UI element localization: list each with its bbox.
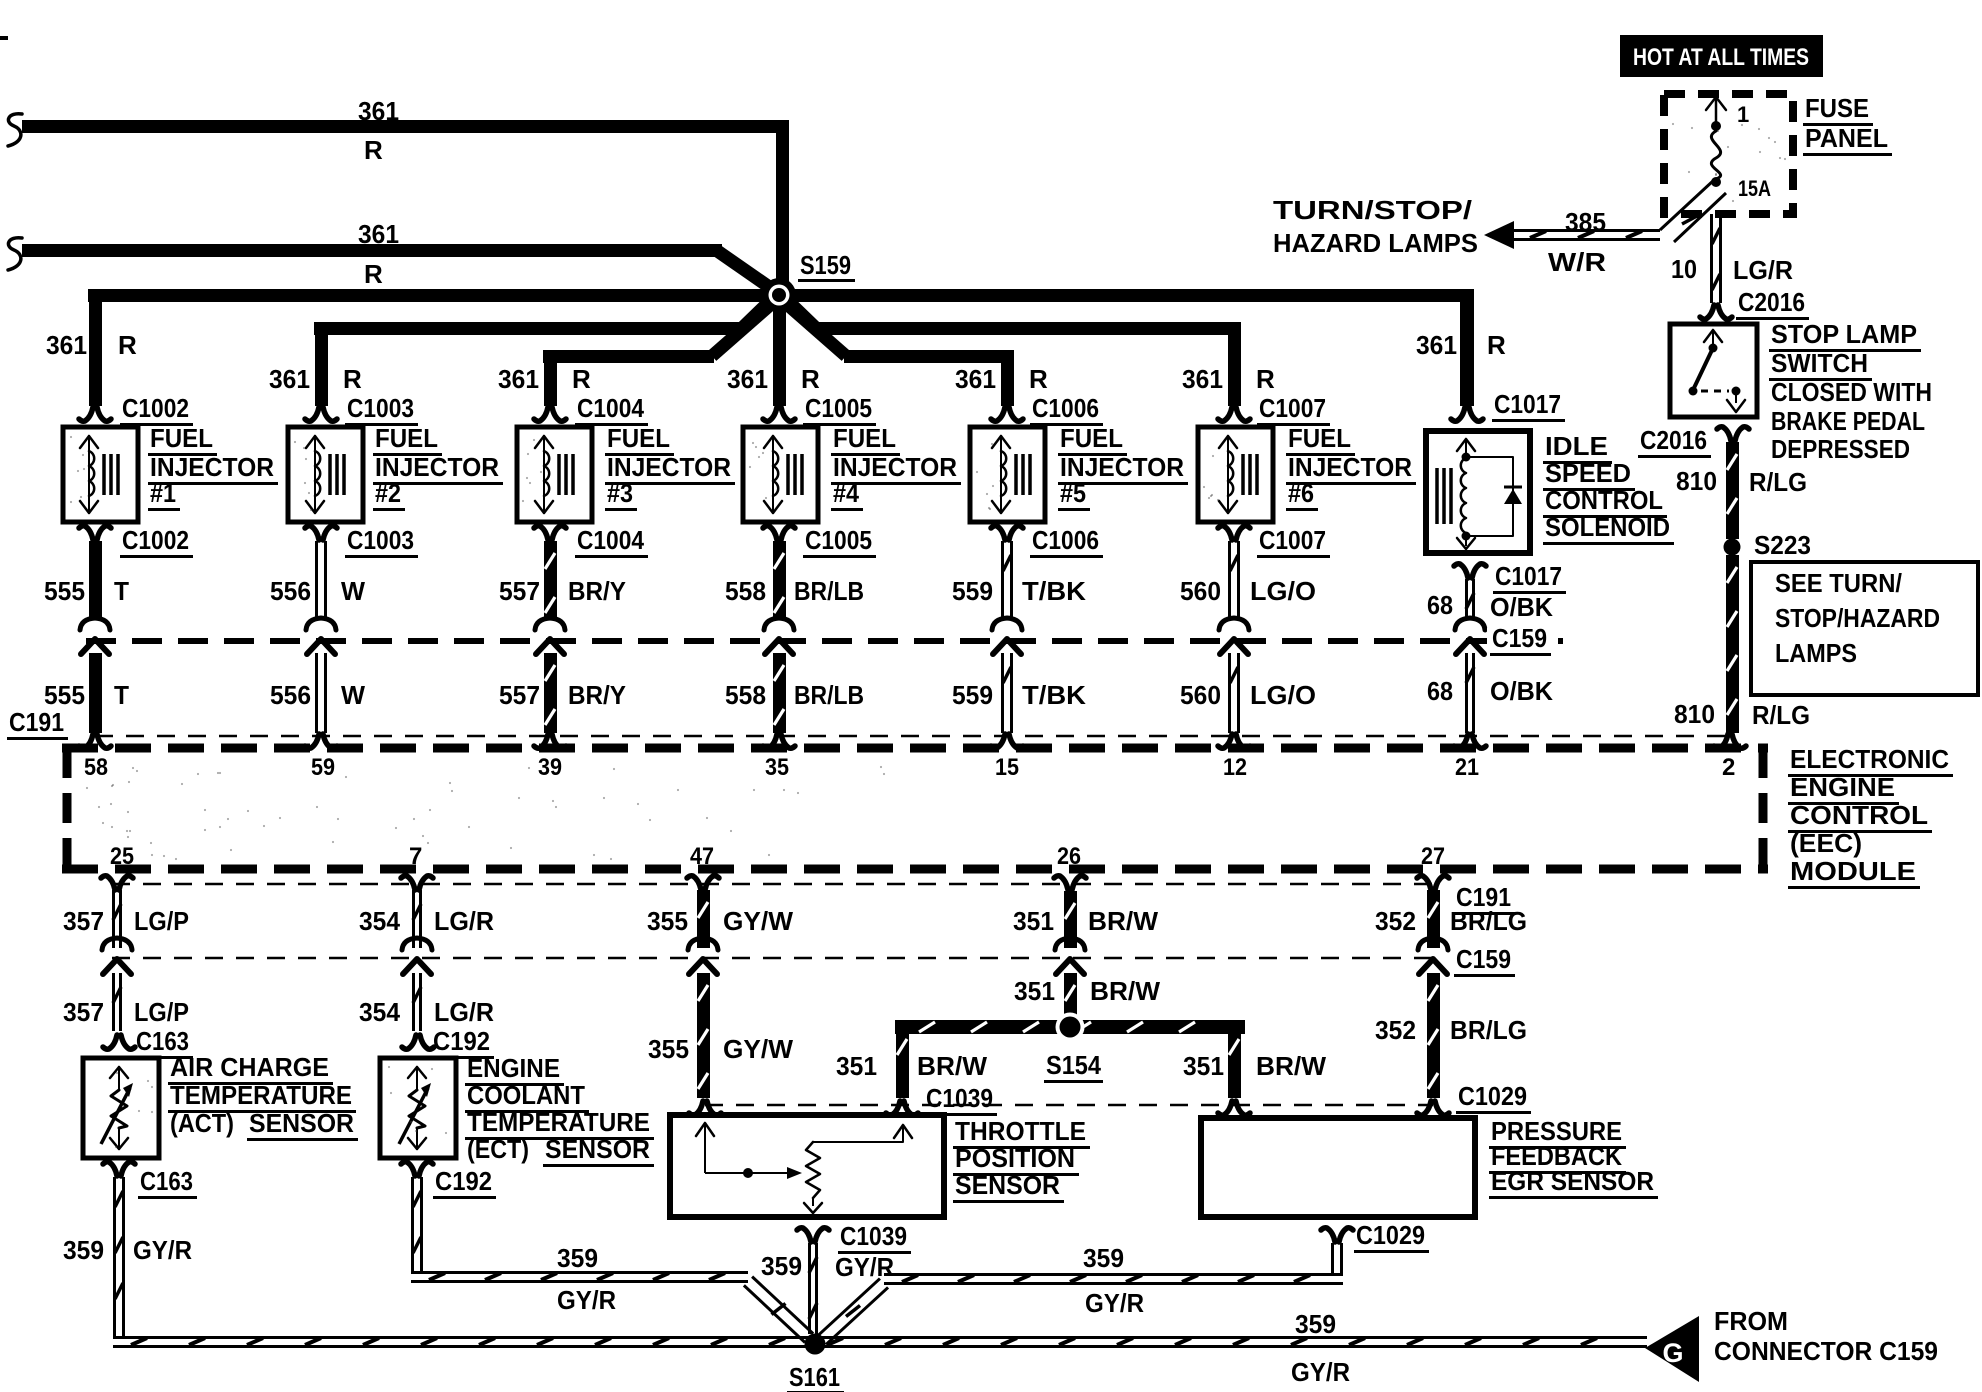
connector C191 fork (wire 810) <box>1714 734 1728 748</box>
connector line C159 (thin dashed, lower) <box>112 957 1438 960</box>
svg-text:FUEL: FUEL <box>375 423 438 453</box>
switch contact top dot <box>1709 344 1718 353</box>
fuse terminal 1 dot <box>1711 121 1721 131</box>
svg-text:C1002: C1002 <box>122 525 189 555</box>
wire bus level-1 left (to injector 1) <box>88 289 764 302</box>
svg-text:LG/O: LG/O <box>1250 576 1316 606</box>
svg-text:FUEL: FUEL <box>1288 423 1351 453</box>
connector C1039 (bottom) <box>797 1228 811 1242</box>
svg-text:AIR CHARGE: AIR CHARGE <box>170 1052 329 1082</box>
svg-text:810: 810 <box>1676 466 1717 496</box>
continuation hook 5 (feed A) <box>8 114 22 146</box>
svg-text:557: 557 <box>499 576 540 606</box>
svg-text:FUSE: FUSE <box>1805 93 1869 123</box>
wire 359 EGR diagonal into S161 <box>818 1279 880 1336</box>
svg-text:(ECT): (ECT) <box>467 1134 529 1164</box>
arrowhead to hazard lamps <box>1484 221 1514 249</box>
switch open gap dashed <box>1701 390 1729 393</box>
connector C2016 (bottom) <box>1717 427 1731 441</box>
svg-text:C1039: C1039 <box>926 1083 993 1113</box>
stop lamp switch box <box>1670 324 1757 417</box>
wire 68 O/BK lower segment <box>1465 653 1468 733</box>
connector C1017 (top) <box>1451 407 1465 421</box>
svg-text:C1017: C1017 <box>1494 389 1561 419</box>
svg-text:PANEL: PANEL <box>1805 123 1888 153</box>
electronic engine control EEC module dashed box <box>62 744 1768 753</box>
svg-text:351: 351 <box>836 1051 877 1081</box>
wire drop idle speed control <box>1460 295 1474 406</box>
switch blade <box>1693 348 1713 390</box>
svg-text:27: 27 <box>1421 843 1445 870</box>
svg-text:361: 361 <box>46 330 87 360</box>
connector C191 fork (wire 560) <box>1218 734 1232 748</box>
svg-text:352: 352 <box>1375 906 1416 936</box>
svg-text:W/R: W/R <box>1548 247 1606 277</box>
svg-text:C1005: C1005 <box>805 525 872 555</box>
svg-text:558: 558 <box>725 576 766 606</box>
svg-text:359: 359 <box>63 1235 104 1265</box>
svg-text:R/LG: R/LG <box>1752 700 1810 730</box>
air charge temperature ACT sensor <box>83 1058 159 1158</box>
svg-text:12: 12 <box>1223 754 1247 781</box>
wire 557 BR/Y upper segment <box>544 541 557 617</box>
fuel injector #5 <box>970 427 1045 522</box>
svg-text:GY/W: GY/W <box>723 906 793 936</box>
svg-text:O/BK: O/BK <box>1490 676 1553 706</box>
svg-text:R: R <box>118 330 137 360</box>
svg-text:G: G <box>1662 1338 1683 1368</box>
fuse panel dashed box <box>1664 94 1793 214</box>
svg-text:C1029: C1029 <box>1356 1220 1425 1250</box>
svg-text:C163: C163 <box>140 1166 193 1196</box>
svg-text:59: 59 <box>311 754 335 781</box>
wire bus level-3 right (to injector 5) <box>844 350 1014 363</box>
wire drop injector 5 <box>1001 356 1014 406</box>
svg-text:HOT AT ALL TIMES: HOT AT ALL TIMES <box>1633 44 1809 71</box>
wire 68 O/BK upper segment <box>1465 579 1468 617</box>
svg-text:C192: C192 <box>435 1166 492 1196</box>
svg-text:559: 559 <box>952 576 993 606</box>
svg-text:FUEL: FUEL <box>150 423 213 453</box>
svg-text:S223: S223 <box>1754 530 1811 560</box>
svg-text:C1003: C1003 <box>347 525 414 555</box>
svg-text:GY/R: GY/R <box>557 1285 616 1315</box>
wire 359 GY/R from ECT horizontal <box>411 1271 748 1274</box>
wire drop injector 1 <box>89 295 102 406</box>
svg-text:1: 1 <box>1737 102 1749 127</box>
svg-text:T: T <box>114 680 129 710</box>
svg-text:GY/R: GY/R <box>1085 1288 1144 1318</box>
fuel injector #2 <box>288 427 363 522</box>
svg-text:C1006: C1006 <box>1032 525 1099 555</box>
connector C191 fork (wire 559) <box>991 734 1005 748</box>
svg-text:C159: C159 <box>1492 623 1547 653</box>
svg-text:SWITCH: SWITCH <box>1771 348 1868 378</box>
wire feed B diagonal into S159 <box>716 250 775 291</box>
svg-text:GY/W: GY/W <box>723 1034 793 1064</box>
pressure feedback EGR sensor box <box>1201 1118 1475 1217</box>
svg-text:C192: C192 <box>433 1026 490 1056</box>
wire 810 R/LG upper segment <box>1726 442 1739 539</box>
svg-text:R: R <box>364 135 383 165</box>
switch entry arrow <box>1712 331 1714 345</box>
diode CR (flyback) <box>1504 489 1522 504</box>
wire drop injector 2 <box>315 328 328 406</box>
svg-text:#5: #5 <box>1060 478 1086 508</box>
svg-text:(EEC): (EEC) <box>1790 828 1862 858</box>
svg-text:HAZARD LAMPS: HAZARD LAMPS <box>1273 228 1478 258</box>
svg-text:SENSOR: SENSOR <box>955 1170 1060 1200</box>
svg-text:361: 361 <box>727 364 768 394</box>
svg-text:560: 560 <box>1180 680 1221 710</box>
svg-text:47: 47 <box>690 843 714 870</box>
splice S223 <box>1724 539 1741 556</box>
wire 559 T/BK upper segment <box>1001 541 1004 617</box>
svg-text:35: 35 <box>765 754 789 781</box>
wire bus level-1 right (to idle speed control) <box>794 289 1474 302</box>
svg-text:T: T <box>114 576 129 606</box>
TPS internal: resistor zigzag <box>806 1142 820 1198</box>
svg-text:361: 361 <box>358 219 399 249</box>
connector C191 fork (wire 557) <box>534 734 548 748</box>
svg-text:361: 361 <box>498 364 539 394</box>
svg-text:FUEL: FUEL <box>607 423 670 453</box>
ISC entry arrow <box>1465 439 1467 456</box>
connector C1007 (top) <box>1218 407 1232 421</box>
svg-text:68: 68 <box>1427 590 1453 620</box>
connector C192 (bottom) <box>401 1162 415 1176</box>
connector C1002 (top) <box>79 407 93 421</box>
svg-text:C159: C159 <box>1456 944 1511 974</box>
TPS internal: bottom arrow <box>812 1198 814 1206</box>
svg-text:810: 810 <box>1674 699 1715 729</box>
ISC core bars <box>1435 468 1439 524</box>
svg-text:FUEL: FUEL <box>833 423 896 453</box>
svg-text:ELECTRONIC: ELECTRONIC <box>1790 744 1949 774</box>
svg-text:BR/LB: BR/LB <box>794 680 864 710</box>
wire 385 diagonal to fuse <box>1660 180 1714 230</box>
svg-text:C1006: C1006 <box>1032 393 1099 423</box>
svg-text:39: 39 <box>538 754 562 781</box>
wire 555 T upper segment <box>89 541 102 617</box>
fuel injector #4 <box>743 427 818 522</box>
fuel injector #6 <box>1198 427 1273 522</box>
wire 810 R/LG lower segment <box>1726 555 1739 733</box>
connector C1039 fork (left) <box>689 1101 703 1115</box>
connector C1039 fork (right) <box>886 1101 900 1115</box>
svg-text:357: 357 <box>63 906 104 936</box>
connector C1006 (bottom) <box>991 526 1005 540</box>
svg-text:355: 355 <box>647 906 688 936</box>
svg-text:R: R <box>1029 364 1048 394</box>
connector C1029 fork (right/352) <box>1417 1101 1431 1115</box>
connector fork at pin 25 + wire 357 LG/P <box>101 876 115 890</box>
connector C1005 (bottom) <box>763 526 777 540</box>
wire 556 W upper segment <box>315 541 318 617</box>
wire 560 LG/O upper segment <box>1228 541 1231 617</box>
connector line C1039/C1029 (thin dashed) <box>705 1104 1433 1107</box>
wire 359 GY/R ground bus (bottom run) <box>113 1336 1647 1339</box>
svg-text:BRAKE PEDAL: BRAKE PEDAL <box>1771 406 1925 436</box>
ISC junction dots <box>1462 453 1471 462</box>
switch exit arrow <box>1735 391 1737 403</box>
wire 359 GY/R from EGR vertical <box>1331 1243 1334 1273</box>
svg-text:361: 361 <box>1416 330 1457 360</box>
svg-text:THROTTLE: THROTTLE <box>955 1116 1086 1146</box>
connector fork at pin 26 + wire 351 BR/W <box>1054 876 1068 890</box>
svg-text:354: 354 <box>359 997 401 1027</box>
HOT AT ALL TIMES banner <box>1620 35 1823 77</box>
wire 361 R power feed A (top) <box>22 120 789 133</box>
connector line C191 (thin dashed, above EEC) <box>95 735 1726 738</box>
wire 359 GY/R from EGR horizontal <box>884 1273 1343 1276</box>
svg-text:C1029: C1029 <box>1458 1081 1527 1111</box>
svg-text:#4: #4 <box>833 478 859 508</box>
svg-text:CONTROL: CONTROL <box>1790 800 1928 830</box>
svg-text:R: R <box>364 259 383 289</box>
inline connector dashed line C159 (upper) <box>86 638 1563 644</box>
svg-text:26: 26 <box>1057 843 1081 870</box>
wire 555 T lower segment <box>89 653 102 733</box>
svg-text:SPEED: SPEED <box>1545 458 1631 488</box>
svg-text:BR/LG: BR/LG <box>1450 906 1527 936</box>
svg-text:S161: S161 <box>789 1362 840 1392</box>
svg-text:MODULE: MODULE <box>1790 856 1916 886</box>
svg-text:359: 359 <box>1295 1309 1336 1339</box>
svg-text:C191: C191 <box>9 707 64 737</box>
svg-text:BR/LB: BR/LB <box>794 576 864 606</box>
svg-text:LG/P: LG/P <box>134 997 189 1027</box>
inline connector C159 (wire 558) <box>764 618 794 630</box>
fuel injector #1 <box>63 427 138 522</box>
svg-text:POSITION: POSITION <box>955 1143 1075 1173</box>
svg-text:10: 10 <box>1671 254 1697 284</box>
svg-text:IDLE: IDLE <box>1545 431 1608 461</box>
svg-text:C1002: C1002 <box>122 393 189 423</box>
svg-text:359: 359 <box>1083 1243 1124 1273</box>
svg-text:TEMPERATURE: TEMPERATURE <box>170 1080 352 1110</box>
svg-text:W: W <box>341 576 365 606</box>
connector line C191 (thin dashed, below EEC) <box>112 883 1438 886</box>
wire 361 R power feed B (second) <box>22 244 722 257</box>
wire drop injector 4 from splice <box>773 300 786 406</box>
wire 560 LG/O lower segment <box>1228 653 1231 733</box>
switch contact bottom-right dot <box>1732 387 1741 396</box>
connector C1004 (top) <box>534 407 548 421</box>
connector C1007 (bottom) <box>1218 526 1232 540</box>
connector C1005 (top) <box>763 407 777 421</box>
svg-text:BR/W: BR/W <box>1088 906 1158 936</box>
svg-text:359: 359 <box>557 1243 598 1273</box>
svg-text:CLOSED WITH: CLOSED WITH <box>1771 377 1932 407</box>
wire 385 W/R horizontal <box>1512 229 1660 232</box>
connector C1004 (bottom) <box>534 526 548 540</box>
svg-text:LAMPS: LAMPS <box>1775 638 1857 668</box>
connector C1029 (bottom) <box>1321 1228 1335 1242</box>
fuse element <box>1711 131 1720 179</box>
continuation hook 5 (feed B) <box>8 238 22 270</box>
inline connector C159 (wire 555) <box>80 618 110 630</box>
svg-text:#2: #2 <box>375 478 401 508</box>
svg-text:SOLENOID: SOLENOID <box>1545 512 1670 542</box>
wire 351 branch to TPS <box>896 1027 909 1098</box>
wire 559 T/BK lower segment <box>1001 653 1004 733</box>
inline connector C159 (wire 559) <box>992 618 1022 630</box>
wire 351 branch to EGR <box>1228 1027 1241 1098</box>
wire bus level-2 right (to injector 6) <box>814 322 1241 335</box>
svg-text:355: 355 <box>648 1034 689 1064</box>
svg-text:C1039: C1039 <box>840 1221 907 1251</box>
wire 359 ECT diagonal into S161 <box>744 1285 805 1342</box>
connector C163 fork <box>103 1035 117 1049</box>
svg-text:LG/R: LG/R <box>434 997 494 1027</box>
wire 556 W lower segment <box>315 653 318 733</box>
inline connector C159 (wire 68) <box>1455 618 1485 630</box>
svg-text:LG/R: LG/R <box>1733 255 1793 285</box>
svg-text:359: 359 <box>761 1251 802 1281</box>
wire 10 LG/R <box>1710 214 1713 303</box>
wire drop injector 3 <box>544 356 557 406</box>
svg-text:BR/LG: BR/LG <box>1450 1015 1527 1045</box>
svg-text:SENSOR: SENSOR <box>249 1108 354 1138</box>
svg-text:BR/Y: BR/Y <box>568 680 626 710</box>
svg-text:R: R <box>572 364 591 394</box>
svg-text:LG/O: LG/O <box>1250 680 1316 710</box>
svg-text:361: 361 <box>955 364 996 394</box>
grommet G arrow (from connector C159) <box>1645 1316 1699 1382</box>
svg-text:CONTROL: CONTROL <box>1545 485 1663 515</box>
svg-text:S159: S159 <box>800 250 851 280</box>
ISC diode branch <box>1466 457 1513 536</box>
svg-text:ENGINE: ENGINE <box>1790 772 1895 802</box>
wire 359 GY/R from ECT vertical <box>411 1177 414 1271</box>
inline connector C159 (wire 556) <box>306 618 336 630</box>
svg-text:R: R <box>1487 330 1506 360</box>
svg-text:555: 555 <box>44 680 85 710</box>
svg-text:#3: #3 <box>607 478 633 508</box>
splice S159 <box>762 278 796 312</box>
svg-text:W: W <box>341 680 365 710</box>
svg-text:C2016: C2016 <box>1738 287 1805 317</box>
wire 557 BR/Y lower segment <box>544 653 557 733</box>
svg-text:C2016: C2016 <box>1640 425 1707 455</box>
connector C163 (bottom) <box>103 1162 117 1176</box>
svg-text:C1017: C1017 <box>1495 561 1562 591</box>
svg-text:C1007: C1007 <box>1259 525 1326 555</box>
svg-text:351: 351 <box>1013 906 1054 936</box>
svg-text:558: 558 <box>725 680 766 710</box>
throttle position sensor box <box>670 1115 944 1217</box>
svg-text:C1004: C1004 <box>577 525 644 555</box>
svg-text:R: R <box>801 364 820 394</box>
connector C1017 (bottom) <box>1454 564 1468 578</box>
svg-text:385: 385 <box>1565 207 1606 237</box>
svg-text:R/LG: R/LG <box>1749 467 1807 497</box>
svg-text:EGR SENSOR: EGR SENSOR <box>1491 1166 1654 1196</box>
svg-text:LG/R: LG/R <box>434 906 494 936</box>
connector C191 fork (wire 555) <box>79 734 93 748</box>
svg-text:(ACT): (ACT) <box>170 1108 234 1138</box>
svg-text:O/BK: O/BK <box>1490 592 1553 622</box>
svg-text:58: 58 <box>84 754 108 781</box>
connector fork at pin 27 + wire 352 BR/LG <box>1417 876 1431 890</box>
svg-text:CONNECTOR C159: CONNECTOR C159 <box>1714 1336 1938 1366</box>
connector fork at pin 47 + wire 355 GY/W <box>687 876 701 890</box>
ISC exit arrow <box>1465 536 1467 546</box>
idle speed control solenoid box <box>1426 431 1530 553</box>
svg-text:R: R <box>343 364 362 394</box>
connector C191 fork (wire 558) <box>763 734 777 748</box>
svg-text:TURN/STOP/: TURN/STOP/ <box>1273 195 1472 225</box>
svg-text:LG/P: LG/P <box>134 906 189 936</box>
fuse terminal 15A dot <box>1711 177 1721 187</box>
svg-text:7: 7 <box>409 843 422 870</box>
fuel injector #3 <box>517 427 592 522</box>
svg-text:COOLANT: COOLANT <box>467 1080 585 1110</box>
connector C1002 (bottom) <box>79 526 93 540</box>
connector C192 fork <box>402 1035 416 1049</box>
svg-text:BR/Y: BR/Y <box>568 576 626 606</box>
svg-text:557: 557 <box>499 680 540 710</box>
svg-text:361: 361 <box>1182 364 1223 394</box>
wire 359 GY/R from TPS <box>808 1243 811 1334</box>
wire bus level-2 left (to injector 2) <box>314 322 744 335</box>
svg-text:GY/R: GY/R <box>133 1235 192 1265</box>
splice S154 dot <box>1056 1013 1085 1042</box>
connector C1003 (top) <box>305 407 319 421</box>
connector C1029 fork (left/351) <box>1218 1101 1232 1115</box>
connector C191 fork (wire 556) <box>305 734 319 748</box>
svg-text:SEE TURN/: SEE TURN/ <box>1775 568 1902 598</box>
engine coolant temperature ECT sensor <box>380 1058 456 1158</box>
svg-text:#6: #6 <box>1288 478 1314 508</box>
svg-text:C1005: C1005 <box>805 393 872 423</box>
svg-text:560: 560 <box>1180 576 1221 606</box>
svg-text:357: 357 <box>63 997 104 1027</box>
inline connector C159 (wire 560) <box>1219 618 1249 630</box>
svg-text:T/BK: T/BK <box>1022 576 1086 606</box>
svg-text:2: 2 <box>1722 754 1735 781</box>
connector fork at pin 7 + wire 354 LG/R <box>401 876 415 890</box>
wire drop injector 6 <box>1228 328 1241 406</box>
svg-text:DEPRESSED: DEPRESSED <box>1771 434 1910 464</box>
splice S154 horizontal bus <box>895 1020 1245 1034</box>
svg-text:STOP/HAZARD: STOP/HAZARD <box>1775 603 1940 633</box>
svg-text:T/BK: T/BK <box>1022 680 1086 710</box>
svg-text:21: 21 <box>1455 754 1479 781</box>
switch contact bottom-left dot <box>1689 387 1698 396</box>
connector C1006 (top) <box>991 407 1005 421</box>
svg-text:15: 15 <box>995 754 1019 781</box>
svg-text:361: 361 <box>269 364 310 394</box>
svg-text:FUEL: FUEL <box>1060 423 1123 453</box>
wire 361 feed A vertical drop to S159 <box>776 126 789 282</box>
svg-text:ENGINE: ENGINE <box>467 1053 560 1083</box>
wire 558 BR/LB lower segment <box>773 653 786 733</box>
svg-text:25: 25 <box>110 843 134 870</box>
svg-text:TEMPERATURE: TEMPERATURE <box>467 1107 650 1137</box>
inline connector C159 (wire 557) <box>535 618 565 630</box>
svg-text:GY/R: GY/R <box>1291 1357 1350 1387</box>
svg-text:C1003: C1003 <box>347 393 414 423</box>
SEE TURN/STOP/HAZARD LAMPS note box <box>1751 562 1978 695</box>
svg-text:351: 351 <box>1183 1051 1224 1081</box>
svg-text:S154: S154 <box>1046 1050 1101 1080</box>
connector C2016 (top) <box>1700 305 1714 319</box>
label C159 (wire 68) <box>1487 628 1555 648</box>
svg-text:555: 555 <box>44 576 85 606</box>
svg-text:C1004: C1004 <box>577 393 644 423</box>
